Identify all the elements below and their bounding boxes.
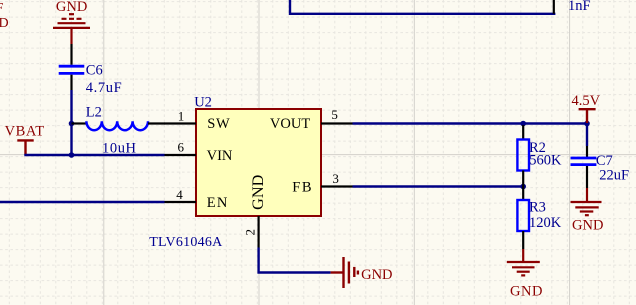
svg-text:EN: EN	[207, 195, 229, 211]
svg-text:5: 5	[331, 107, 338, 122]
svg-text:GND: GND	[249, 174, 267, 209]
svg-text:1: 1	[178, 109, 185, 124]
svg-text:4: 4	[176, 187, 183, 202]
svg-text:D: D	[0, 16, 9, 31]
pin C7 bottom	[586, 166, 588, 188]
svg-text:GND: GND	[510, 284, 543, 300]
junction	[520, 184, 526, 190]
pin 1 SW	[165, 122, 197, 124]
inductor L2	[86, 121, 148, 130]
svg-text:GND: GND	[361, 267, 392, 283]
svg-text:10uH: 10uH	[102, 140, 137, 156]
IC U2 body	[196, 109, 321, 216]
svg-text:VIN: VIN	[207, 148, 233, 164]
svg-text:VBAT: VBAT	[5, 123, 45, 139]
svg-text:4.7uF: 4.7uF	[86, 80, 122, 96]
junction	[584, 121, 590, 127]
capacitor C7	[586, 125, 588, 146]
pin 2 GND (bottom)	[258, 216, 260, 248]
wire VOUT net	[353, 122, 588, 124]
pin (capacitor pin, top right)	[553, 0, 555, 14]
svg-text:SW: SW	[207, 116, 230, 132]
svg-text:560K: 560K	[529, 152, 562, 168]
svg-text:1nF: 1nF	[568, 0, 591, 14]
wire EN net from left edge	[0, 201, 165, 203]
svg-text:3: 3	[332, 171, 339, 186]
svg-text:GND: GND	[56, 0, 87, 15]
power port GND under C7	[571, 188, 602, 215]
resistor R2	[522, 125, 524, 140]
power port GND (bottom, rotated)	[331, 257, 358, 288]
pin 3 FB	[321, 185, 353, 187]
wire VBAT to VIN pin	[24, 154, 164, 156]
wire FB net	[353, 185, 524, 187]
svg-text:U2: U2	[194, 94, 212, 110]
wire GND to C6	[70, 44, 72, 65]
svg-text:22uF: 22uF	[599, 168, 629, 184]
pin R3 bottom	[522, 231, 524, 249]
junction	[69, 121, 75, 127]
power port GND top-left	[53, 14, 90, 44]
wire GND pin2 to ground	[259, 248, 331, 273]
svg-text:GND: GND	[572, 217, 603, 233]
wire junction to L2	[72, 122, 88, 124]
svg-text:F: F	[0, 1, 4, 16]
power port GND under R3	[507, 249, 540, 275]
pin R2 bottom	[522, 171, 524, 187]
svg-text:120K: 120K	[529, 215, 562, 231]
junction	[520, 121, 526, 127]
pin 6 VIN	[165, 154, 197, 156]
svg-text:R3: R3	[529, 200, 546, 216]
pin 5 VOUT	[321, 122, 353, 124]
svg-text:VOUT: VOUT	[270, 116, 310, 132]
capacitor C6	[59, 66, 85, 73]
junction	[69, 152, 75, 158]
svg-text:6: 6	[177, 140, 184, 155]
wire L2 to SW pin	[148, 122, 165, 124]
wire top net	[290, 0, 555, 14]
svg-text:L2: L2	[86, 105, 102, 121]
wire C6 to VIN rail	[70, 90, 72, 155]
svg-text:FB: FB	[292, 179, 313, 195]
resistor R3	[522, 187, 524, 201]
svg-text:2: 2	[243, 229, 258, 236]
svg-text:TLV61046A: TLV61046A	[149, 235, 223, 250]
pin C6 bottom	[70, 75, 72, 90]
pin 4 EN	[165, 201, 197, 203]
partial text at left edge (cut off)	[0, 1, 9, 31]
svg-text:C6: C6	[86, 62, 103, 78]
svg-text:4.5V: 4.5V	[572, 93, 601, 109]
